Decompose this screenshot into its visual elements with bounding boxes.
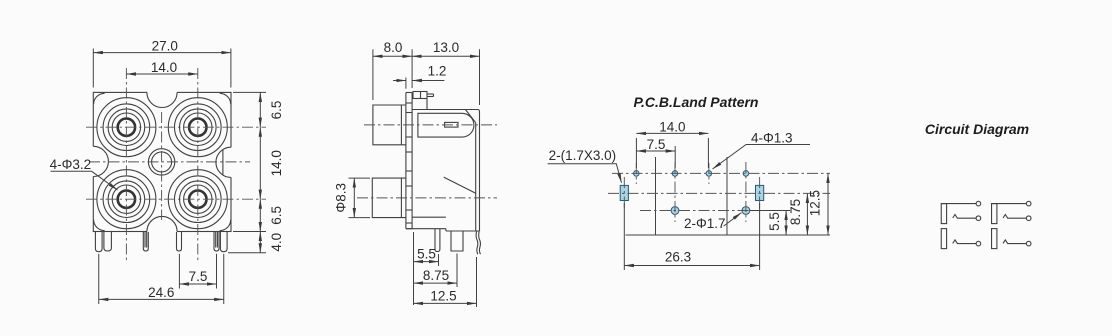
top barrel xyxy=(373,105,406,145)
dim 1.2 xyxy=(393,64,446,89)
boundary vertical left xyxy=(655,157,657,235)
main centerline xyxy=(608,192,830,194)
jack2 middle terminal circle xyxy=(1026,216,1031,221)
CIRCUIT DIAGRAM xyxy=(925,121,1031,249)
svg-text:Circuit Diagram: Circuit Diagram xyxy=(925,121,1029,137)
label 2-phi1.7 xyxy=(684,213,741,231)
dim 5.5 right xyxy=(750,211,790,236)
inner corner arc bottom-right xyxy=(220,220,231,231)
bottom dims of side view xyxy=(414,232,477,307)
body outline rect xyxy=(93,92,231,231)
pin A (left flat) xyxy=(95,232,102,252)
svg-text:12.5: 12.5 xyxy=(808,190,823,216)
centerline horizontal top jacks xyxy=(86,126,266,128)
side pin wide xyxy=(451,231,463,251)
label 4-phi3.2 with leader xyxy=(50,157,118,190)
jack top-left circles xyxy=(103,104,150,151)
dim phi8.3 xyxy=(334,178,371,218)
scallop circle around top-left jack xyxy=(97,98,156,157)
jack bottom-left circles xyxy=(103,176,150,223)
svg-text:6.5: 6.5 xyxy=(269,206,284,225)
dim 14.0 xyxy=(636,119,708,168)
right slot pad xyxy=(756,185,764,200)
right dim chain ext lines xyxy=(233,91,266,93)
jack cavity xyxy=(418,113,474,137)
svg-text:12.5: 12.5 xyxy=(430,288,456,303)
svg-text:2-(1.7X3.0): 2-(1.7X3.0) xyxy=(549,148,617,163)
center hole circles xyxy=(148,149,174,175)
svg-text:4-Φ1.3: 4-Φ1.3 xyxy=(751,131,793,146)
jack top-right circles xyxy=(175,104,222,151)
svg-text:Φ8.3: Φ8.3 xyxy=(334,183,349,213)
svg-text:4-Φ3.2: 4-Φ3.2 xyxy=(50,157,92,172)
dim 8.75 right xyxy=(788,193,807,235)
pin D xyxy=(177,232,182,251)
svg-text:27.0: 27.0 xyxy=(152,39,178,54)
top holes centerline xyxy=(612,172,830,174)
scallop circle around bottom-left jack xyxy=(97,170,156,229)
svg-text:P.C.B.Land Pattern: P.C.B.Land Pattern xyxy=(634,94,759,110)
svg-text:13.0: 13.0 xyxy=(433,40,459,55)
jack1 sleeve rect lower xyxy=(941,229,946,249)
svg-text:8.0: 8.0 xyxy=(384,40,403,55)
svg-text:4.0: 4.0 xyxy=(269,233,284,252)
dim 14.0 right xyxy=(259,127,261,199)
dim 8.75 xyxy=(414,282,458,284)
bottom barrel xyxy=(372,178,406,218)
jack2 bottom switch contact xyxy=(1003,240,1026,244)
bottom holes centerline xyxy=(640,210,790,212)
svg-text:14.0: 14.0 xyxy=(659,119,685,134)
jack1 top terminal circle xyxy=(976,201,981,206)
svg-text:24.6: 24.6 xyxy=(148,285,174,300)
boundary bottom xyxy=(626,234,831,236)
svg-text:6.5: 6.5 xyxy=(269,101,284,120)
dim 8.0 xyxy=(373,40,412,100)
main body outline xyxy=(406,110,480,232)
hole bottom right xyxy=(742,207,750,215)
flange plate xyxy=(406,93,412,229)
inner corner arc top-right xyxy=(220,93,231,104)
dim 5.5 xyxy=(414,261,439,263)
top mounting tab xyxy=(413,92,434,110)
dim 14.0 top xyxy=(126,60,197,75)
right notch chord xyxy=(222,150,224,175)
hole bottom left xyxy=(671,207,679,215)
scallop circle around top-right jack xyxy=(168,98,227,157)
dim 24.6 bottom xyxy=(99,254,224,304)
svg-text:8.75: 8.75 xyxy=(423,268,449,283)
vertical centerline hole col 1 xyxy=(635,163,637,184)
dim 26.3 xyxy=(624,203,759,270)
dim 7.5 xyxy=(636,137,675,168)
svg-text:7.5: 7.5 xyxy=(647,137,666,152)
jack1 middle terminal circle xyxy=(976,216,981,221)
label 4-phi1.3 xyxy=(713,131,811,169)
dim 13.0 xyxy=(412,40,479,105)
jack1 bottom switch contact xyxy=(953,240,976,244)
jack2 top terminal line xyxy=(991,203,1026,205)
hole 1 top xyxy=(634,171,640,177)
centerline top barrel xyxy=(364,124,497,126)
jack2 middle switch contact xyxy=(1003,215,1026,219)
svg-text:26.3: 26.3 xyxy=(665,250,691,265)
svg-text:14.0: 14.0 xyxy=(269,150,284,176)
side pin front xyxy=(435,229,440,252)
SIDE VIEW xyxy=(334,40,498,307)
inner corner arc bottom-left xyxy=(94,220,105,231)
pin B xyxy=(104,232,112,251)
bottom edge dome xyxy=(147,217,177,232)
centerline horizontal middle xyxy=(89,161,250,163)
svg-text:8.75: 8.75 xyxy=(788,199,803,225)
jack2 bottom terminal circle xyxy=(1026,241,1031,246)
inner corner arc top-left xyxy=(94,93,105,104)
vertical centerline right slot xyxy=(759,177,761,209)
dim 12.5 xyxy=(414,302,477,304)
vertical centerline hole col 3 xyxy=(708,163,710,184)
svg-text:5.5: 5.5 xyxy=(417,247,436,262)
svg-text:2-Φ1.7: 2-Φ1.7 xyxy=(684,216,726,231)
dim 4.0 right xyxy=(259,232,261,253)
left edge notch xyxy=(92,146,107,176)
jack1 top terminal line xyxy=(941,203,976,205)
dim 6.5 right bottom xyxy=(259,199,261,231)
rear squiggle pin xyxy=(476,231,478,254)
svg-text:14.0: 14.0 xyxy=(151,60,177,75)
top edge notch xyxy=(147,91,177,106)
boundary vertical right xyxy=(726,157,728,235)
pin C (round with inner lines) xyxy=(143,232,148,251)
dim 6.5 right top xyxy=(259,92,261,127)
left slot pad xyxy=(620,185,628,200)
scallop circle around bottom-right jack xyxy=(168,170,227,229)
PCB LAND PATTERN xyxy=(548,94,830,270)
jack1 middle switch contact xyxy=(953,215,976,219)
label 2-(1.7X3.0) xyxy=(548,148,622,183)
right edge notch xyxy=(217,147,232,177)
centerline bottom barrel xyxy=(357,197,497,199)
vertical centerline left slot xyxy=(623,177,625,209)
jack1 sleeve rect upper xyxy=(941,204,946,224)
vertical centerline hole col 4 xyxy=(745,162,747,222)
centerline vertical left jacks xyxy=(125,68,127,262)
pin E (round with inner lines) xyxy=(214,232,219,251)
FRONT VIEW xyxy=(50,39,284,305)
jack2 sleeve rect upper xyxy=(992,204,997,224)
jack1 bottom terminal circle xyxy=(976,241,981,246)
dim 12.5 right xyxy=(808,173,829,235)
dim 7.5 bottom xyxy=(179,254,216,289)
hole 4 top xyxy=(743,171,749,177)
pin F (right flat) xyxy=(220,232,227,252)
jack2 sleeve rect lower xyxy=(992,229,997,249)
jack bottom-right circles xyxy=(175,176,222,223)
svg-text:5.5: 5.5 xyxy=(767,212,782,231)
jack2 top terminal circle xyxy=(1026,201,1031,206)
svg-text:1.2: 1.2 xyxy=(428,64,447,79)
centerline horizontal bottom jacks xyxy=(86,198,266,200)
hole 2 top xyxy=(672,171,678,177)
dim 27.0 xyxy=(93,39,231,88)
svg-text:7.5: 7.5 xyxy=(189,269,208,284)
centerline vertical right jacks xyxy=(197,68,199,262)
vertical centerline hole col 2 xyxy=(674,162,676,222)
centerline vertical middle xyxy=(161,112,163,220)
hole 3 top xyxy=(706,171,712,177)
